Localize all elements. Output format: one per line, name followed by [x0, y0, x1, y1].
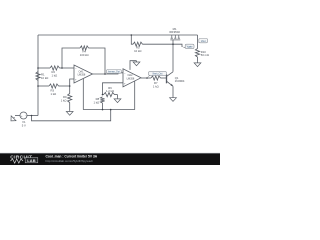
svg-text:http://circuitlab.com/c/5yk3hf: http://circuitlab.com/c/5yk3hf6pywadr	[46, 159, 93, 163]
svg-text:R5: R5	[136, 46, 140, 50]
svg-text:IRF9540: IRF9540	[169, 30, 180, 34]
op-amp OA1 LM358	[74, 65, 93, 83]
svg-text:LAB: LAB	[27, 158, 36, 163]
resistor R2 1k (inverting input)	[50, 66, 60, 70]
resistor R8 1k (OA2 + vertical)	[100, 97, 104, 103]
ground at OA2 VS+	[136, 61, 138, 62]
ground at Q1 emitter	[172, 96, 174, 97]
svg-text:1 kΩ: 1 kΩ	[51, 92, 57, 96]
resistor R1 10k (left rail)	[36, 72, 40, 81]
footer bar	[0, 153, 220, 165]
node branch B left	[37, 85, 39, 87]
svg-text:R2: R2	[52, 70, 56, 74]
wire bottom rail	[32, 110, 111, 121]
wire left rail	[37, 35, 39, 116]
svg-text:100 kΩ: 100 kΩ	[80, 53, 89, 57]
voltage source V1	[20, 112, 27, 119]
wire OA1 VS- stub	[82, 79, 84, 110]
svg-text:R10: R10	[201, 50, 207, 54]
svg-text:1.2 kΩ: 1.2 kΩ	[106, 89, 114, 93]
ground below shunt R10	[197, 62, 199, 63]
node R6/R8 split	[102, 94, 104, 96]
wire OA2 VS+ to ground	[130, 61, 137, 70]
resistor R5 (gate line)	[133, 42, 143, 46]
svg-text:R9: R9	[63, 95, 67, 99]
svg-text:1 kΩ: 1 kΩ	[61, 98, 67, 102]
wire shunt branch	[197, 35, 199, 49]
svg-text:LM358: LM358	[78, 74, 86, 77]
svg-text:R8: R8	[96, 97, 100, 101]
svg-text:R7: R7	[154, 81, 158, 85]
node gate node	[172, 43, 174, 45]
svg-text:Vout: Vout	[201, 40, 206, 43]
svg-text:1 kΩ: 1 kΩ	[153, 85, 159, 89]
svg-text:1 kΩ: 1 kΩ	[52, 74, 58, 78]
transistor M1 PMOS pass element	[171, 35, 173, 38]
resistor R3 1k (branch B)	[49, 84, 59, 88]
resistor R6 1.2k (OA2 + horizontal)	[104, 93, 115, 97]
net flag pointer Isense_Out	[105, 72, 110, 74]
ground at R6	[117, 98, 119, 99]
node bus riser	[110, 109, 112, 111]
wire feedback loop	[62, 48, 80, 68]
wire non-inverting branch	[38, 85, 49, 87]
svg-text:R1: R1	[41, 72, 45, 76]
svg-text:50 mΩ: 50 mΩ	[201, 53, 209, 57]
svg-text:10 kΩ: 10 kΩ	[134, 49, 141, 53]
wire OA1 output	[93, 73, 124, 74]
net flag pointer Vout	[198, 41, 203, 44]
op-amp OA2 LM358	[123, 69, 141, 87]
net flag pointer Ilimit_Out	[147, 74, 152, 78]
node OA2 out	[146, 77, 148, 79]
net flag pointer Vgate	[182, 47, 187, 48]
node V1 node	[31, 115, 33, 117]
wire OA2 output	[141, 77, 151, 79]
wire OA2 VS- stub	[134, 81, 136, 110]
svg-text:Cool_man : Current limiter 5V: Cool_man : Current limiter 5V 3A	[46, 155, 98, 159]
wire top rail	[38, 34, 198, 36]
ground at V1	[9, 115, 17, 123]
node inverting node	[61, 67, 63, 69]
svg-text:5 V: 5 V	[22, 123, 26, 127]
node gate tap	[131, 34, 133, 36]
ground below R9	[69, 110, 71, 111]
resistor R9 1k (OA1 + to gnd)	[68, 94, 72, 103]
node R8 bottom	[102, 109, 104, 111]
svg-text:LM358: LM358	[127, 77, 135, 80]
transistor Q1 2N3904	[166, 74, 168, 83]
wire OA2 + input network	[103, 83, 124, 95]
svg-text:Isense_Out: Isense_Out	[108, 70, 120, 73]
resistor R10 shunt 50m (right)	[195, 49, 199, 58]
resistor R4 100k (feedback)	[80, 46, 89, 50]
wire V1 positive lead	[27, 115, 38, 117]
svg-text:R3: R3	[51, 88, 55, 92]
svg-text:Ilimit_Out: Ilimit_Out	[153, 72, 163, 75]
svg-text:1 kΩ: 1 kΩ	[93, 101, 99, 105]
svg-text:R6: R6	[108, 86, 112, 90]
svg-text:2N3904: 2N3904	[175, 79, 185, 83]
node branch A left	[37, 67, 39, 69]
wire op-amp negative-supply bus	[83, 109, 134, 111]
wire OA1 + input drop	[70, 79, 74, 94]
svg-text:10 kΩ: 10 kΩ	[41, 76, 48, 80]
wire inverting branch	[38, 67, 50, 69]
wire gate line from top rail	[131, 35, 133, 44]
svg-text:Vgate: Vgate	[187, 46, 194, 49]
svg-text:R4: R4	[82, 49, 86, 53]
node branch B right	[69, 85, 71, 87]
resistor R7 1k (base drive)	[151, 76, 161, 80]
node OA1 out	[104, 73, 106, 75]
